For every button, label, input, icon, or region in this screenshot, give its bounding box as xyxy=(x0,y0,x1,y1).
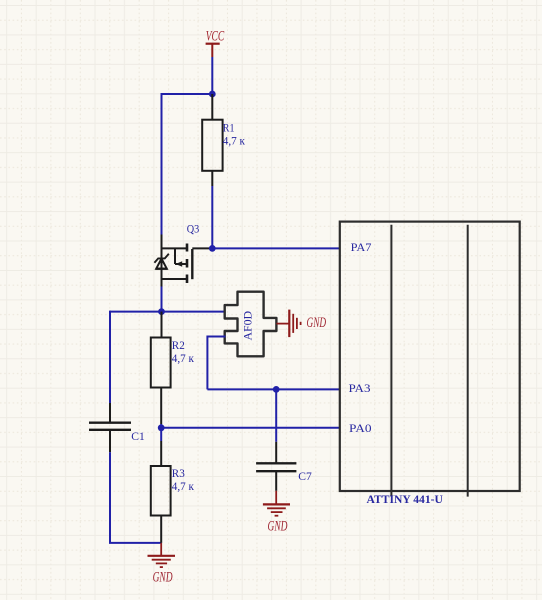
svg-text:PA3: PA3 xyxy=(349,383,371,395)
ground GND below C7 xyxy=(263,491,290,516)
junction PA0 node xyxy=(158,424,165,431)
body diode of Q3 (zener) xyxy=(154,254,168,269)
wire from junction to gate branch xyxy=(162,93,213,95)
svg-text:4,7 к: 4,7 к xyxy=(223,135,246,147)
component AF0D (sensor pad) xyxy=(225,292,277,357)
svg-text:C7: C7 xyxy=(298,471,312,483)
junction at VCC/R1 xyxy=(209,91,216,98)
svg-text:PA7: PA7 xyxy=(351,242,372,254)
wire down to Q3 xyxy=(161,93,163,235)
wire PA3 net xyxy=(207,388,340,390)
wire down to C7 xyxy=(275,389,277,441)
wire PA0 net xyxy=(161,427,340,429)
svg-text:R1: R1 xyxy=(223,123,235,135)
wire VCC net vertical xyxy=(211,57,213,94)
wire PA7 net xyxy=(212,247,340,249)
svg-text:PA0: PA0 xyxy=(349,423,372,435)
wire C1 bottom to R3 bottom xyxy=(109,542,161,544)
svg-text:VCC: VCC xyxy=(206,28,225,44)
wire R2 to junction xyxy=(160,424,162,428)
svg-text:AF0D: AF0D xyxy=(243,311,255,341)
wire AF0D lower pin xyxy=(207,336,225,338)
ground GND right of AF0D (rotated) xyxy=(276,310,300,338)
resistor R3 xyxy=(151,428,171,543)
svg-text:GND: GND xyxy=(268,518,288,534)
wire R1 to PA7 node xyxy=(211,186,213,248)
svg-text:R2: R2 xyxy=(172,340,185,352)
wire node down to C1 xyxy=(109,311,111,403)
capacitor C1 xyxy=(89,403,131,452)
junction PA3/C7 xyxy=(273,386,280,393)
wire node horizontal to AF0D xyxy=(110,311,226,313)
svg-text:GND: GND xyxy=(307,315,327,331)
ground GND below R3 xyxy=(148,543,176,567)
IC U1 ATTINY 441-U xyxy=(340,222,520,497)
resistor R2 xyxy=(151,312,171,424)
power flag VCC xyxy=(206,28,225,57)
junction at gate/R1/PA7 xyxy=(209,245,216,252)
svg-text:R3: R3 xyxy=(172,468,185,480)
wire C1 down xyxy=(109,452,111,543)
junction at sensor node xyxy=(158,308,165,315)
svg-text:ATTINY 441-U: ATTINY 441-U xyxy=(367,492,444,506)
resistor R1 xyxy=(202,94,222,186)
transistor Q3 (P-MOSFET with body zener diode) xyxy=(161,235,213,287)
svg-text:Q3: Q3 xyxy=(187,223,200,235)
svg-text:GND: GND xyxy=(153,570,173,586)
svg-text:C1: C1 xyxy=(131,431,145,443)
wire down to PA3 net xyxy=(206,336,208,390)
wire Q3 drain down to node xyxy=(161,287,163,312)
capacitor C7 xyxy=(256,442,296,491)
svg-text:4,7 к: 4,7 к xyxy=(172,353,195,365)
svg-text:4,7 к: 4,7 к xyxy=(172,481,195,493)
